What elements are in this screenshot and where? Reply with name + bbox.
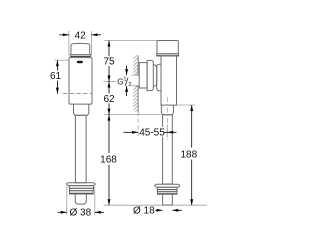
svg-text:61: 61 [50, 71, 62, 82]
dimension O 38 [66, 187, 68, 216]
side cap rim [157, 54, 179, 56]
svg-text:75: 75 [103, 57, 115, 68]
svg-text:Ø 38: Ø 38 [69, 208, 91, 219]
svg-text:62: 62 [103, 94, 115, 105]
union nut [139, 63, 147, 88]
svg-text:1: 1 [123, 76, 126, 82]
cap rim [70, 55, 90, 57]
connector neck [153, 65, 157, 87]
dimension 42 [68, 31, 70, 57]
svg-text:188: 188 [180, 149, 197, 160]
extension line cap top [105, 40, 158, 42]
side pipe end [163, 194, 173, 205]
flush pipe front [75, 115, 86, 182]
side outlet step [161, 105, 173, 115]
valve cover body [69, 58, 92, 105]
dimension 61 [55, 59, 69, 61]
side rosette ring [157, 187, 177, 194]
side flush pipe [163, 115, 173, 184]
side cap [157, 41, 178, 54]
push cap [71, 43, 90, 54]
dimension line 168 [108, 115, 110, 206]
outlet step front [74, 104, 89, 115]
rosette ring front [69, 186, 93, 194]
dimension G 1/2 [132, 74, 137, 76]
dimension O 18 [156, 209, 163, 211]
pipe centerline [166, 97, 168, 140]
extension line inlet center [104, 81, 117, 83]
wall hatching lower [133, 86, 138, 112]
sensor window [77, 61, 83, 64]
body boss [157, 64, 161, 91]
extension line outlet level [104, 114, 161, 116]
svg-text:2: 2 [128, 82, 131, 88]
svg-text:45-55: 45-55 [139, 128, 165, 139]
wall line [137, 55, 139, 74]
dimension line 75 [108, 41, 110, 82]
inlet pipe stub G1/2 [135, 74, 139, 76]
adapter disc [147, 60, 153, 90]
side body [161, 56, 177, 105]
dimension 188 [177, 104, 195, 106]
dimension line 62 [108, 82, 110, 115]
hidden mounting line (dashed) [63, 93, 92, 95]
wall hatching upper [133, 55, 138, 74]
wall line extension (light) [137, 112, 139, 137]
svg-text:42: 42 [75, 31, 87, 42]
outlet spigot front [75, 194, 86, 204]
extension line pipe end [104, 204, 207, 206]
side rosette plate [155, 184, 180, 187]
rosette plate front [67, 183, 95, 186]
svg-text:168: 168 [100, 154, 117, 165]
dimension 45-55 [166, 125, 168, 138]
svg-text:Ø 18: Ø 18 [133, 206, 155, 217]
